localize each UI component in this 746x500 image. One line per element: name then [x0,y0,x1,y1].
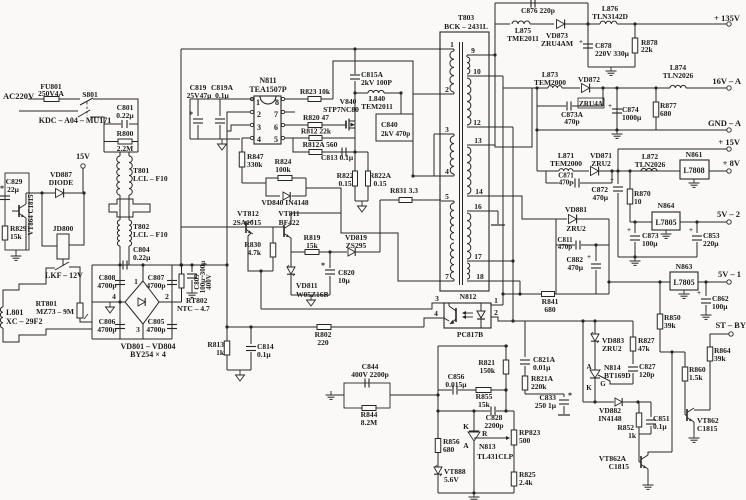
wire 16V row to L871 row [536,88,538,171]
wire VD883 branch [582,321,584,402]
svg-text:DIODE: DIODE [49,178,74,187]
svg-text:2SA1015: 2SA1015 [233,218,262,227]
svg-text:L801: L801 [6,308,23,317]
svg-text:5V – 2: 5V – 2 [717,209,740,219]
wire pin1 row [453,49,455,51]
wire R847 to R824 loop [242,182,266,184]
svg-text:R812 22k: R812 22k [301,127,332,136]
capacitor C801 symbol [104,123,121,125]
svg-text:TEM2000: TEM2000 [550,159,582,168]
svg-text:L7808: L7808 [683,166,704,175]
wire VT862A collector [648,452,672,455]
wire R841 row [503,293,541,295]
svg-text:39k: 39k [714,354,727,363]
capacitor C876 [495,2,588,4]
svg-text:15k: 15k [478,400,491,409]
svg-text:TEA1507P: TEA1507P [249,85,286,94]
svg-text:R823 10k: R823 10k [300,87,331,96]
wire GND-A rail [537,129,727,131]
resistor R841 [542,292,555,297]
svg-text:3: 3 [435,294,439,303]
wire bus long x=513 [512,127,514,321]
svg-text:470p: 470p [558,243,573,251]
svg-text:+: + [697,289,701,297]
svg-text:TEM2011: TEM2011 [361,102,393,111]
svg-text:C1815: C1815 [697,424,718,433]
secondary winding seg 13-14 [467,147,471,194]
svg-text:N864: N864 [658,201,675,210]
svg-text:17: 17 [474,252,482,261]
wire 5V-2 out [680,221,727,223]
pin 7 row [452,280,454,282]
svg-text:4: 4 [434,309,438,318]
ground under R822 [361,201,363,206]
svg-text:220k: 220k [531,382,547,391]
svg-text:1000μ: 1000μ [622,113,642,122]
wire pin2 sampling top row [438,345,508,347]
snubber box C840 [376,114,413,141]
svg-text:4: 4 [445,167,449,176]
svg-text:+ 135V: + 135V [714,13,741,23]
svg-text:BY254 × 4: BY254 × 4 [130,350,166,359]
ground at node 4 [109,302,111,307]
switch S801 pole 2 [78,110,90,117]
primary winding T803 upper [450,51,454,92]
wire C856 net left vertical [437,346,439,438]
svg-text:C813 0.1μ: C813 0.1μ [321,153,354,162]
svg-text:S801: S801 [82,90,98,99]
ground under C878 [610,67,612,71]
ground under C874 [616,130,618,134]
core of T801/T802 [109,199,150,217]
svg-text:+: + [587,253,591,261]
wire fuse to switch [59,98,80,100]
wire filter box bottom [104,151,138,153]
ground under N861 [693,179,695,183]
light arrows inside N812 [464,312,473,314]
wire 135V node [587,3,589,67]
svg-text:KDC – A04 – MU171: KDC – A04 – MU171 [39,116,111,125]
diode inside bridge [138,298,145,306]
svg-text:BCK – 2431L: BCK – 2431L [444,22,488,31]
svg-text:680: 680 [660,109,672,118]
svg-text:25V47μ: 25V47μ [187,91,212,100]
svg-text:+: + [689,226,693,234]
ground under C819A [221,139,223,144]
wire bridge box bottom [92,338,172,340]
wire L801 bottom arm [3,328,92,342]
secondary winding seg 18 [467,263,470,279]
svg-text:0.1μ: 0.1μ [653,422,667,431]
wire R821A to C833 [525,393,564,395]
wire VD840 loop right [305,178,307,196]
svg-text:8.2M: 8.2M [361,418,377,427]
ground under N863 [683,290,685,294]
wire VT862 emitter ground [693,422,695,434]
capacitor C811 [558,236,573,244]
svg-text:330k: 330k [247,160,263,169]
svg-text:+: + [610,176,614,184]
diode VD840 [266,183,280,196]
svg-text:N812: N812 [460,292,477,301]
svg-text:5.6V: 5.6V [444,475,459,484]
svg-text:680: 680 [443,445,455,454]
ground under C833 [558,414,570,416]
wire bus pin9 pin13 [494,3,496,145]
svg-text:4.7k: 4.7k [247,248,261,257]
svg-text:*: * [189,110,193,119]
svg-text:A: A [463,441,469,450]
svg-text:K: K [586,384,592,392]
primary winding T803 seg2 [450,136,454,174]
svg-text:R800: R800 [117,129,134,138]
wire bus long x=503 [502,76,504,305]
inductor L875 [495,23,510,25]
svg-text:0.015μ: 0.015μ [445,380,467,389]
ground centre tap [491,224,505,226]
svg-text:220V 330μ: 220V 330μ [595,49,630,58]
standby sense box [5,173,29,250]
wire RT801 to bridge [80,318,92,322]
svg-text:470p: 470p [564,117,579,126]
secondary winding seg 10-12 [467,78,471,125]
svg-text:+: + [627,226,631,234]
svg-text:4700p: 4700p [146,281,165,290]
wire top rail y=49 [181,48,454,50]
svg-text:2: 2 [257,110,261,119]
svg-text:0.22μ: 0.22μ [133,253,151,262]
svg-text:N813: N813 [479,442,496,451]
wire VT811 emitter [290,238,292,252]
svg-text:R812A 560: R812A 560 [303,140,338,149]
wire B+ rail y=265 [92,264,227,266]
svg-text:VD840 IN4148: VD840 IN4148 [261,198,309,207]
svg-text:L7805: L7805 [673,278,694,287]
svg-text:3: 3 [257,123,261,132]
svg-text:IN4148: IN4148 [598,414,622,423]
svg-text:2: 2 [445,85,449,94]
wire left boundary x=181 [180,49,182,265]
resistor R847 [242,137,244,139]
svg-text:5V – 1: 5V – 1 [718,269,741,279]
svg-text:5: 5 [274,135,278,144]
svg-text:13: 13 [474,136,482,145]
secondary winding seg 16-17 [467,213,471,259]
wire snubber to pin4 line [412,141,414,176]
ground under N813 [473,493,475,497]
svg-text:N861: N861 [686,150,703,159]
wire bus pin16 centre tap ground [497,211,499,224]
wire bus pin13 to L873 row [495,88,532,147]
svg-text:8: 8 [275,98,279,107]
ground left of C844 [331,394,344,396]
ground under C862 [705,311,707,315]
svg-text:+ 8V: + 8V [723,158,741,168]
svg-text:TME2011: TME2011 [507,34,539,43]
svg-text:K: K [463,422,469,431]
svg-text:ZRU2: ZRU2 [591,159,611,168]
wire R823 feedback to snubber [333,61,413,114]
svg-text:150k: 150k [480,366,496,375]
wire pin2 pin3 to R813 rail [227,112,244,265]
wire standby box bottom [556,293,609,295]
svg-text:ZRU4A: ZRU4A [579,100,604,108]
wire R822 bottom join [355,200,368,202]
svg-text:1.5k: 1.5k [689,373,703,382]
wire VD887 to relay [42,193,57,246]
svg-text:2kV 100P: 2kV 100P [361,78,392,87]
svg-text:TLN2026: TLN2026 [635,160,666,169]
svg-text:1: 1 [494,296,498,305]
svg-text:14: 14 [475,187,483,196]
svg-text:LCL – F10: LCL – F10 [133,230,168,239]
wire 5V-2 ground rail [618,256,697,258]
svg-text:VD872: VD872 [578,75,600,84]
thermistor RT802 [181,265,183,274]
svg-text:47k: 47k [638,344,651,353]
svg-text:XC – 29F2: XC – 29F2 [6,317,42,326]
wire C844 to C856 net [390,394,438,396]
svg-text:TLN3142D: TLN3142D [592,12,628,21]
svg-text:4700p: 4700p [97,325,116,334]
bridge rectifier VD801-VD804 diamond [125,281,159,324]
svg-text:ZRU4AM: ZRU4AM [541,39,573,48]
svg-text:4: 4 [257,135,261,144]
svg-text:10: 10 [473,67,481,76]
svg-text:VT812: VT812 [237,209,259,218]
wire R852 C851 bottom [639,433,651,435]
ground under R813 [239,370,241,375]
wire pin14 to VD881 box [489,196,556,219]
wire R850 bottom row [660,351,685,353]
wire C819 top rail [190,98,250,100]
wire N864 input [630,221,652,223]
ground under VD811 row [310,295,312,300]
svg-text:16: 16 [474,202,482,211]
wire rail to R813 [227,326,424,328]
svg-text:220: 220 [317,338,329,347]
svg-text:3: 3 [445,125,449,134]
wire AC live top [28,98,44,100]
svg-text:R820 47: R820 47 [303,113,329,122]
wire VD811 row to opto pin3 [261,303,444,309]
primary winding T803 seg3 [450,203,454,240]
wire VD811 C820 ground row [291,294,330,296]
svg-text:39k: 39k [664,321,677,330]
svg-text:JD800: JD800 [53,224,74,233]
wire VT862 collector to R864 [694,409,710,411]
svg-text:VT864 C1815: VT864 C1815 [27,194,35,236]
svg-text:470μ: 470μ [567,263,583,272]
wire VT862A collector up to R850 row [671,352,673,452]
diode VD873 [557,20,565,29]
primary winding T803 seg4 [450,243,454,279]
svg-text:400V 2200p: 400V 2200p [351,370,389,379]
svg-text:100μ: 100μ [642,239,658,248]
arrow into RP823 [482,437,508,439]
svg-text:R: R [482,429,488,438]
svg-text:+: + [608,102,612,110]
svg-text:LCL – F10: LCL – F10 [133,174,168,183]
svg-text:0.22μ: 0.22μ [116,111,134,120]
svg-text:NTC – 4.7: NTC – 4.7 [177,304,210,313]
ground under N864 [665,230,667,234]
wire R802 to opto pin4 [424,318,444,327]
wire ST-BY to R864 [710,334,729,347]
svg-text:15k: 15k [306,241,319,250]
ground under box [15,250,17,252]
svg-text:4: 4 [112,292,116,301]
wire LKF right arm to RT801 [69,267,80,303]
wire filter box sides [103,124,105,152]
svg-text:0.01μ: 0.01μ [533,363,551,372]
svg-text:T803: T803 [458,13,475,22]
svg-text:*: * [321,261,325,270]
resistor R800 [117,130,133,139]
wire VD840 row to aux winding [306,188,452,281]
svg-text:LKF – 12V: LKF – 12V [45,271,83,280]
wire AC neutral bottom [19,110,78,112]
wire C878 R878 bottom [588,66,635,68]
switch LKF-12V [55,262,69,270]
wire VT812 collector loop [248,233,273,271]
svg-text:100μ: 100μ [712,302,728,311]
svg-text:MZ73 – 9M: MZ73 – 9M [36,307,74,316]
svg-text:+ 15V: + 15V [718,137,740,147]
wire pole2 to filter [90,117,104,124]
svg-text:BT169D: BT169D [604,371,631,380]
svg-text:TL431CLP: TL431CLP [477,452,514,461]
svg-text:470p: 470p [559,179,574,187]
svg-text:1: 1 [256,98,260,107]
svg-text:1: 1 [134,277,138,286]
svg-text:470μ: 470μ [592,193,608,202]
svg-text:PC817B: PC817B [457,330,483,339]
svg-text:250 1μ: 250 1μ [535,401,557,410]
svg-text:400V: 400V [205,274,213,290]
svg-text:+: + [579,38,583,46]
core of T803 [459,42,461,285]
svg-text:ZRU2: ZRU2 [566,224,586,233]
wire +8V out [709,170,727,172]
svg-text:VD811: VD811 [296,281,318,290]
wire VT862A emitter to ground [647,469,649,481]
svg-text:R831 3.3: R831 3.3 [390,186,418,195]
wire 5V-1 rail [609,281,670,283]
svg-text:C1815: C1815 [609,462,630,471]
wire sampling rail to R827 [632,321,634,337]
wire bridge box right [171,265,173,339]
wire C828 right to RP823 [513,411,515,430]
svg-text:22μ: 22μ [7,185,20,194]
wire 5V-1 out [698,281,727,283]
svg-text:220μ: 220μ [703,239,719,248]
wire pin18 to box bottom [519,281,521,294]
svg-text:15V: 15V [76,152,90,161]
wire to VT862A base [638,434,640,462]
wire R813 C814 bottom [227,369,251,371]
svg-text:*: * [0,184,4,193]
svg-text:7: 7 [274,110,278,119]
capacitor C871 [545,171,547,183]
svg-text:7: 7 [445,272,449,281]
svg-text:4700p: 4700p [146,325,165,334]
svg-text:10: 10 [634,197,642,206]
transformer T803 box [440,32,489,291]
svg-text:VD881: VD881 [565,205,587,214]
capacitor C809 [191,265,193,272]
svg-text:0.15: 0.15 [338,179,351,188]
ground under C873 [634,257,636,261]
svg-text:2: 2 [165,292,169,301]
label ZRU4A boxed [578,98,604,108]
svg-text:0.15: 0.15 [373,179,386,188]
svg-text:16V – A: 16V – A [712,76,742,86]
wire loop down to opto row [260,271,262,309]
wire feedback bottom rail [438,492,514,494]
wire LKF left arm [3,268,55,307]
wire bridge box left [91,265,93,339]
standby box [555,219,557,294]
wire +15V rail [618,148,727,150]
svg-text:C876 220p: C876 220p [521,6,555,15]
LED inside N812 [477,311,485,318]
wire C819 bottom [190,138,240,140]
svg-text:2kV 470p: 2kV 470p [381,130,410,138]
svg-text:500: 500 [519,436,531,445]
svg-text:STP7NC80: STP7NC80 [323,105,359,114]
svg-text:N863: N863 [676,262,693,271]
svg-text:ZRU2: ZRU2 [602,344,622,353]
svg-text:12: 12 [473,118,481,127]
svg-text:1k: 1k [628,431,637,440]
svg-text:ST – BY: ST – BY [715,320,746,330]
svg-text:1: 1 [450,40,454,49]
pin 3 stub [434,133,454,135]
svg-text:0.1μ: 0.1μ [257,350,271,359]
svg-text:2.4k: 2.4k [519,478,533,487]
svg-text:100k: 100k [275,165,291,174]
svg-text:2: 2 [494,308,498,317]
svg-text:*: * [568,391,572,400]
phototransistor inside N812 [455,308,457,322]
svg-text:3: 3 [136,325,140,334]
svg-text:C840: C840 [381,120,398,129]
svg-text:120p: 120p [639,370,654,379]
svg-text:1k: 1k [216,348,225,357]
capacitor C801 [117,104,133,113]
svg-text:6: 6 [274,123,278,132]
svg-text:N811: N811 [259,76,276,85]
svg-text:GND – A: GND – A [708,118,742,128]
svg-text:10μ: 10μ [338,276,351,285]
wire switch pole1 to filter [93,99,138,124]
svg-text:15k: 15k [10,232,23,241]
pin 9 stub [467,54,495,56]
svg-text:4700p: 4700p [97,281,116,290]
wire VD819 up to R831 row [379,200,381,252]
svg-text:9: 9 [471,46,475,55]
svg-text:18: 18 [476,272,484,281]
svg-text:L7805: L7805 [655,218,676,227]
svg-text:0.1μ: 0.1μ [215,91,229,100]
svg-text:5: 5 [445,192,449,201]
svg-text:680: 680 [544,305,556,314]
wire base link VT812-VT811 [246,226,284,228]
gate wire of N814 [598,375,633,384]
wire RP823 to R825 [513,445,515,472]
resistor R802 [315,331,331,340]
